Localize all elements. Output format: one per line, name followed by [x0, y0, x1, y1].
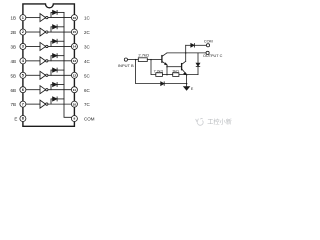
svg-text:COM: COM: [204, 39, 213, 43]
svg-text:2: 2: [22, 30, 24, 34]
svg-text:16: 16: [73, 16, 77, 20]
svg-text:COM: COM: [84, 117, 95, 122]
svg-text:4: 4: [22, 59, 24, 63]
svg-text:12: 12: [73, 73, 77, 77]
svg-text:7B: 7B: [10, 102, 16, 107]
svg-text:14: 14: [73, 45, 77, 49]
svg-text:1: 1: [22, 16, 24, 20]
svg-text:E: E: [14, 117, 17, 122]
svg-text:INPUT B: INPUT B: [118, 63, 134, 68]
svg-text:3: 3: [22, 45, 24, 49]
svg-text:15: 15: [73, 30, 77, 34]
svg-text:1B: 1B: [10, 16, 16, 21]
svg-text:2C: 2C: [84, 30, 91, 35]
svg-text:4C: 4C: [84, 59, 91, 64]
svg-text:2B: 2B: [10, 30, 16, 35]
svg-text:10: 10: [73, 102, 77, 106]
svg-text:6: 6: [22, 88, 24, 92]
svg-text:3B: 3B: [10, 45, 16, 50]
svg-text:2.7kΩ: 2.7kΩ: [138, 52, 149, 57]
svg-text:7C: 7C: [84, 102, 91, 107]
svg-text:11: 11: [73, 88, 77, 92]
svg-text:7: 7: [22, 102, 24, 106]
svg-text:5B: 5B: [10, 73, 16, 78]
svg-text:9: 9: [74, 117, 76, 121]
svg-text:8: 8: [22, 117, 24, 121]
svg-text:4B: 4B: [10, 59, 16, 64]
svg-text:5: 5: [22, 73, 24, 77]
svg-text:3C: 3C: [84, 45, 91, 50]
svg-text:6B: 6B: [10, 88, 16, 93]
svg-text:5C: 5C: [84, 73, 91, 78]
svg-text:6C: 6C: [84, 88, 91, 93]
svg-text:工控小新: 工控小新: [207, 118, 232, 126]
svg-text:7.2kΩ: 7.2kΩ: [154, 69, 164, 73]
svg-text:3kΩ: 3kΩ: [172, 69, 179, 73]
svg-text:13: 13: [73, 59, 77, 63]
svg-text:OUTPUT C: OUTPUT C: [203, 54, 223, 58]
svg-text:1C: 1C: [84, 16, 91, 21]
